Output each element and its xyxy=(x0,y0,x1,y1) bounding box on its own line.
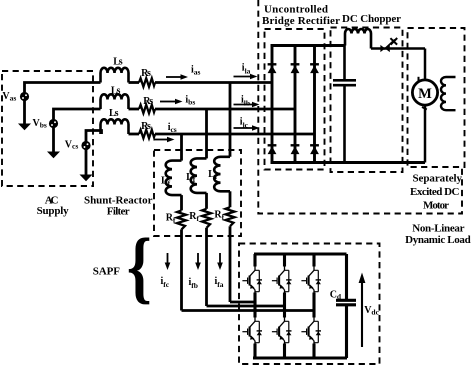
svg-text:Lf: Lf xyxy=(208,169,218,181)
svg-text:Excited DC: Excited DC xyxy=(410,186,460,198)
svg-text:Cd: Cd xyxy=(330,290,342,301)
svg-text:ila: ila xyxy=(242,63,251,76)
svg-text:Filter: Filter xyxy=(107,206,130,218)
svg-text:Separately: Separately xyxy=(413,173,463,185)
svg-text:ifa: ifa xyxy=(215,276,224,289)
svg-text:Rs: Rs xyxy=(141,121,151,132)
svg-text:Motor: Motor xyxy=(423,200,449,212)
svg-text:Ls: Ls xyxy=(111,86,121,97)
svg-text:Supply: Supply xyxy=(37,205,70,217)
svg-text:Dynamic Load: Dynamic Load xyxy=(405,234,471,246)
svg-text:ias: ias xyxy=(191,65,201,77)
svg-text:Rf: Rf xyxy=(214,209,224,221)
svg-text:Bridge Rectifier: Bridge Rectifier xyxy=(262,15,340,27)
svg-text:Rs: Rs xyxy=(141,68,151,79)
svg-text:Vbs: Vbs xyxy=(33,118,47,129)
svg-text:Rf: Rf xyxy=(189,211,199,223)
svg-text:ifb: ifb xyxy=(189,277,198,290)
svg-text:Rf: Rf xyxy=(166,213,176,225)
svg-text:ibs: ibs xyxy=(185,95,195,107)
svg-text:M: M xyxy=(418,86,432,102)
svg-text:ics: ics xyxy=(168,122,177,134)
svg-text:Ls: Ls xyxy=(113,57,123,68)
svg-text:Vcs: Vcs xyxy=(65,139,79,150)
svg-text:Uncontrolled: Uncontrolled xyxy=(264,3,328,15)
svg-text:Non-Linear: Non-Linear xyxy=(412,223,464,235)
svg-text:ilb: ilb xyxy=(241,95,250,108)
svg-text:{: { xyxy=(127,221,152,311)
svg-text:Vas: Vas xyxy=(2,91,16,102)
svg-text:DC Chopper: DC Chopper xyxy=(342,13,401,25)
svg-text:Vdc: Vdc xyxy=(364,305,379,317)
svg-text:Ls: Ls xyxy=(109,108,119,119)
svg-text:Rs: Rs xyxy=(143,96,153,107)
svg-text:ifc: ifc xyxy=(161,276,170,289)
svg-text:SAPF: SAPF xyxy=(93,266,121,278)
